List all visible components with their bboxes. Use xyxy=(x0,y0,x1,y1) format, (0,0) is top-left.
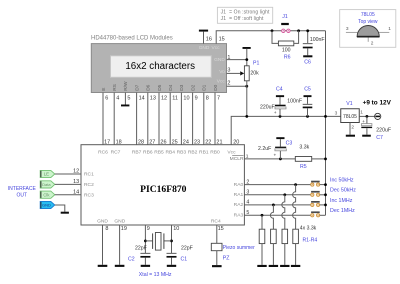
ground LCD pin16 xyxy=(199,30,208,32)
svg-text:HD44780-based LCD Modules: HD44780-based LCD Modules xyxy=(91,36,173,42)
wire Data to RC2 xyxy=(55,183,81,185)
svg-text:16: 16 xyxy=(206,37,212,43)
svg-text:D6: D6 xyxy=(146,84,152,90)
PIC left pin numbers 12 13 14 xyxy=(73,169,79,196)
svg-text:1: 1 xyxy=(388,26,391,32)
wire RA2 to button xyxy=(244,204,310,206)
svg-text:RC7: RC7 xyxy=(111,149,121,155)
svg-text:J1 = Off :soft light: J1 = Off :soft light xyxy=(221,16,264,22)
wire D6 LCD13-PIC27 xyxy=(147,93,149,145)
svg-text:4: 4 xyxy=(116,95,119,101)
svg-text:8: 8 xyxy=(105,226,108,232)
svg-text:9: 9 xyxy=(195,95,198,101)
svg-text:220uF: 220uF xyxy=(260,104,275,110)
svg-text:100: 100 xyxy=(282,48,291,54)
svg-text:D3: D3 xyxy=(179,84,185,90)
78L05 top view legend box xyxy=(340,10,396,48)
node C7 junction xyxy=(366,115,369,118)
wire GND tag to ground xyxy=(55,205,65,212)
svg-text:15: 15 xyxy=(218,226,224,232)
svg-text:D0: D0 xyxy=(213,84,219,90)
svg-text:Xtal = 13 MHz: Xtal = 13 MHz xyxy=(139,272,172,278)
svg-text:C1: C1 xyxy=(181,256,188,262)
ground C4 top xyxy=(276,95,284,97)
wire piezo to ground xyxy=(216,251,218,265)
ground PIC pin8 xyxy=(98,265,108,267)
svg-text:D7: D7 xyxy=(134,84,140,90)
wire P1 bottom to +5V rail xyxy=(246,81,248,117)
PIC bottom labels GND GND RC4 xyxy=(97,218,221,224)
wire D0 LCD7-PIC21 xyxy=(214,93,216,145)
microcontroller U1 PIC16F870 xyxy=(81,145,244,225)
svg-text:22: 22 xyxy=(205,140,211,146)
PIC bottom pin numbers 8 19 9 10 15 xyxy=(105,226,223,232)
svg-text:6: 6 xyxy=(105,95,108,101)
wire resistor to ground xyxy=(295,244,297,265)
svg-text:RC2: RC2 xyxy=(84,182,94,188)
svg-text:220uF: 220uF xyxy=(376,127,391,133)
PIC top port labels xyxy=(98,149,236,155)
capacitor C4 220uF xyxy=(260,87,286,117)
svg-text:17: 17 xyxy=(104,140,110,146)
wire LCD pin16 GND xyxy=(203,32,205,44)
node rail C4 junction xyxy=(279,115,282,118)
potentiometer P1 20k xyxy=(240,60,259,80)
svg-text:Vcc: Vcc xyxy=(212,45,221,51)
connector tag Clk xyxy=(40,191,55,198)
ground C2 xyxy=(141,265,150,267)
svg-text:20k: 20k xyxy=(250,71,259,77)
wire RS LCD4-PIC18 xyxy=(113,93,115,145)
svg-text:D1: D1 xyxy=(202,84,208,90)
svg-text:Inc 1MHz: Inc 1MHz xyxy=(330,198,353,204)
wire PIC pin8 GND xyxy=(102,225,104,265)
wire V1 pin1 to +9-12V input xyxy=(359,115,374,117)
PIC top pin numbers xyxy=(104,140,239,146)
wire RA3 to button xyxy=(244,214,310,216)
wire LE to RC1 xyxy=(55,173,81,175)
svg-text:13: 13 xyxy=(150,95,156,101)
svg-text:15: 15 xyxy=(219,37,225,43)
wire LCD pin15 Vcc to top net xyxy=(216,31,325,44)
svg-text:R1-R4: R1-R4 xyxy=(303,238,318,244)
svg-text:RS: RS xyxy=(112,84,118,91)
wire R/W LCD5 to ground xyxy=(124,93,126,105)
svg-text:4x 3.3k: 4x 3.3k xyxy=(300,225,317,231)
node RA3 resistor junction xyxy=(261,214,264,217)
svg-text:D5: D5 xyxy=(157,84,163,90)
svg-text:12: 12 xyxy=(161,95,167,101)
wire R5 to +5V net xyxy=(312,158,326,160)
PIC left port labels RC1 RC2 RC3 xyxy=(84,172,94,199)
svg-text:GND: GND xyxy=(214,57,225,63)
svg-text:22pF: 22pF xyxy=(181,246,193,252)
svg-text:78L05: 78L05 xyxy=(343,114,357,120)
wire resistor to ground xyxy=(272,244,274,265)
svg-text:OUT: OUT xyxy=(17,192,28,198)
pushbutton S1 Inc 50kHz xyxy=(311,181,326,187)
wire RA1 to button xyxy=(244,194,310,196)
capacitor C5 100nF xyxy=(287,87,312,117)
svg-text:14: 14 xyxy=(139,95,145,101)
svg-text:V1: V1 xyxy=(346,101,352,107)
svg-text:GND: GND xyxy=(114,218,125,224)
ground V1 pin2 xyxy=(346,135,355,137)
svg-text:RB5: RB5 xyxy=(154,149,164,155)
svg-text:D4: D4 xyxy=(168,84,174,90)
svg-text:RC1: RC1 xyxy=(84,172,94,178)
node rail vertical net junction xyxy=(324,115,327,118)
wire D4 LCD11-PIC25 xyxy=(169,93,171,145)
PIC label MCLR with overline xyxy=(230,156,244,163)
ground C1 xyxy=(167,265,176,267)
wire resistor to ground xyxy=(284,244,286,265)
svg-text:RB0: RB0 xyxy=(210,149,220,155)
wire P1 top lead xyxy=(246,49,248,66)
svg-text:9: 9 xyxy=(147,226,150,232)
svg-text:+: + xyxy=(362,120,365,125)
svg-text:27: 27 xyxy=(149,140,155,146)
svg-text:1: 1 xyxy=(360,110,363,116)
svg-text:PIC16F870: PIC16F870 xyxy=(140,184,187,195)
svg-text:RB7: RB7 xyxy=(132,149,142,155)
wire D2 LCD9-PIC23 xyxy=(192,93,194,145)
wire RA2 lead with hop xyxy=(270,205,273,229)
node RA2 resistor junction xyxy=(272,204,275,207)
wire V1 pin2 to ground xyxy=(349,123,351,135)
svg-text:MCLR: MCLR xyxy=(230,156,244,162)
svg-text:Clk: Clk xyxy=(43,192,50,197)
wire RA0 lead with hops xyxy=(293,185,296,230)
wire PIC pin15 RC4 to piezo xyxy=(216,225,218,243)
svg-text:2.2uF: 2.2uF xyxy=(258,146,271,152)
svg-text:C2: C2 xyxy=(128,256,135,262)
resistor R1 xyxy=(259,229,265,243)
node P1 bottom junction xyxy=(245,85,248,88)
PIC right pin numbers 2 3 4 5 xyxy=(246,179,249,216)
svg-text:24: 24 xyxy=(183,140,189,146)
wire LCD pin2 Vcc xyxy=(227,85,247,87)
wire PIC pin9 OSC1 xyxy=(144,225,146,253)
wire LCD pin1 GND xyxy=(227,59,247,61)
ground C6 xyxy=(303,55,312,57)
svg-text:26: 26 xyxy=(160,140,166,146)
svg-text:8: 8 xyxy=(206,95,209,101)
piezo buzzer PZ xyxy=(211,243,255,261)
svg-text:1: 1 xyxy=(227,55,230,61)
regulator V1 78L05 xyxy=(335,101,364,122)
svg-text:GND: GND xyxy=(42,203,51,208)
svg-text:+9 to 12V: +9 to 12V xyxy=(363,100,392,107)
svg-text:RA0: RA0 xyxy=(234,182,244,188)
svg-text:3: 3 xyxy=(346,26,349,32)
svg-text:11: 11 xyxy=(172,95,178,101)
svg-text:25: 25 xyxy=(172,140,178,146)
svg-text:R6: R6 xyxy=(284,55,291,61)
svg-text:Piezo summer: Piezo summer xyxy=(223,245,255,251)
svg-text:28: 28 xyxy=(138,140,144,146)
node button3 +5V junction xyxy=(324,204,327,207)
svg-text:PZ: PZ xyxy=(223,255,230,261)
svg-text:+: + xyxy=(273,153,276,158)
svg-text:J1 = On :strong light: J1 = On :strong light xyxy=(221,10,270,16)
resistor R3 xyxy=(282,229,288,243)
crystal Q1 13MHz xyxy=(145,233,171,251)
svg-text:18: 18 xyxy=(116,140,122,146)
node J1 left junction xyxy=(271,29,274,32)
svg-text:RC4: RC4 xyxy=(211,218,221,224)
wire D7 LCD14-PIC28 xyxy=(136,93,138,145)
svg-text:2: 2 xyxy=(371,40,374,46)
wire LCD pin3 Vo wiper xyxy=(227,72,241,74)
svg-text:C6: C6 xyxy=(304,59,311,65)
svg-text:2: 2 xyxy=(227,81,230,87)
note box J1 legend xyxy=(217,7,272,23)
connector tag LE xyxy=(40,170,55,177)
capacitor C6 100nF xyxy=(303,31,325,66)
svg-text:E: E xyxy=(101,88,107,91)
wire PIC pin10 OSC2 xyxy=(171,225,173,253)
capacitor C2 22pF xyxy=(128,246,150,265)
node J1 right junction xyxy=(297,29,300,32)
node rail P1 junction xyxy=(245,115,248,118)
svg-text:19: 19 xyxy=(121,226,127,232)
svg-text:78L05: 78L05 xyxy=(361,12,375,18)
wire D5 LCD12-PIC26 xyxy=(158,93,160,145)
svg-text:GND: GND xyxy=(97,218,108,224)
svg-text:Top view: Top view xyxy=(358,19,378,25)
node RA0 resistor junction xyxy=(294,183,297,186)
node P1 top junction xyxy=(245,58,248,61)
ground resistor xyxy=(291,265,300,267)
wire D1 LCD8-PIC22 xyxy=(203,93,205,145)
svg-text:100nF: 100nF xyxy=(287,99,302,105)
pushbutton S3 Inc 1MHz xyxy=(311,201,326,206)
svg-text:10: 10 xyxy=(183,95,189,101)
wire D3 LCD10-PIC24 xyxy=(180,93,182,145)
terminal +9 to 12V xyxy=(363,100,392,120)
svg-text:7: 7 xyxy=(217,95,220,101)
capacitor C3 2.2uF xyxy=(258,139,292,159)
node button1 +5V junction xyxy=(324,183,327,186)
svg-text:C5: C5 xyxy=(304,87,311,93)
node RA1 resistor junction xyxy=(283,193,286,196)
wire E LCD6-PIC17 xyxy=(102,93,104,145)
svg-text:Dec 50kHz: Dec 50kHz xyxy=(330,188,356,194)
wire RA0 to button xyxy=(244,184,310,186)
node crystal right junction xyxy=(170,240,173,243)
svg-text:INTERFACE: INTERFACE xyxy=(8,186,37,192)
ground P1 top xyxy=(243,47,251,49)
svg-text:J1: J1 xyxy=(282,14,288,20)
svg-text:C3: C3 xyxy=(286,140,293,146)
resistor R5 3.3k xyxy=(295,144,311,170)
node rail C5 junction xyxy=(306,115,309,118)
wire MCLR to R5 xyxy=(244,158,295,160)
wire RA3 lead xyxy=(261,215,263,229)
wire +5V rail to PIC Vcc pin20 xyxy=(231,116,341,144)
ground resistor xyxy=(269,265,278,267)
svg-text:RA3: RA3 xyxy=(234,213,244,219)
LCD bottom pin labels E RS R/W D7-D0 xyxy=(101,81,219,91)
svg-text:LE: LE xyxy=(44,172,49,177)
svg-text:3: 3 xyxy=(227,67,230,73)
wire RA1 lead with hops xyxy=(282,195,285,229)
wire resistor to ground xyxy=(261,244,263,265)
svg-text:16x2 characters: 16x2 characters xyxy=(125,61,195,72)
svg-text:RA2: RA2 xyxy=(234,202,244,208)
svg-text:+: + xyxy=(274,111,277,116)
svg-text:R/W: R/W xyxy=(123,81,129,91)
ground resistor xyxy=(280,265,289,267)
svg-text:5: 5 xyxy=(127,95,130,101)
ground C5 top xyxy=(304,95,312,97)
svg-text:20: 20 xyxy=(233,140,239,146)
svg-text:Vcc: Vcc xyxy=(217,79,226,85)
jumper J1 xyxy=(281,14,290,33)
svg-text:Vo: Vo xyxy=(219,69,225,75)
svg-text:Vcc: Vcc xyxy=(227,149,236,155)
pushbutton S2 Dec 50kHz xyxy=(311,191,326,197)
ground C3 top xyxy=(276,137,284,139)
svg-text:Dec 1MHz: Dec 1MHz xyxy=(330,208,355,214)
ground C7 xyxy=(362,135,371,137)
resistor R4 xyxy=(293,229,299,243)
node crystal left junction xyxy=(144,240,147,243)
svg-text:RC3: RC3 xyxy=(84,193,94,199)
svg-text:C7: C7 xyxy=(376,135,383,141)
svg-text:P1: P1 xyxy=(253,60,259,66)
svg-text:23: 23 xyxy=(194,140,200,146)
ground resistor xyxy=(257,265,266,267)
svg-text:RC6: RC6 xyxy=(98,149,108,155)
ground interface GND xyxy=(61,212,69,214)
resistor R6 100 bypass xyxy=(272,31,299,61)
svg-text:RB6: RB6 xyxy=(143,149,153,155)
svg-text:21: 21 xyxy=(216,140,222,146)
pushbutton S4 Dec 1MHz xyxy=(311,211,326,217)
svg-text:100nF: 100nF xyxy=(310,37,325,43)
capacitor C7 220uF xyxy=(361,116,391,140)
node R5 +5V junction xyxy=(324,158,327,161)
svg-text:RB1: RB1 xyxy=(199,149,209,155)
svg-text:3.3k: 3.3k xyxy=(299,144,309,150)
label INTERFACE OUT xyxy=(8,186,37,198)
svg-text:3: 3 xyxy=(335,110,338,116)
svg-text:2: 2 xyxy=(351,125,354,131)
svg-text:RB4: RB4 xyxy=(165,149,175,155)
svg-text:22pF: 22pF xyxy=(135,246,147,252)
svg-text:RB3: RB3 xyxy=(177,149,187,155)
svg-text:10: 10 xyxy=(173,226,179,232)
LCD module U-LCD HD44780 16x2 xyxy=(91,36,227,93)
wire Clk to RC3 xyxy=(55,194,81,196)
wire PIC pin19 GND xyxy=(119,225,121,265)
svg-text:R5: R5 xyxy=(300,164,307,170)
svg-text:GND: GND xyxy=(199,45,210,51)
node C6 top junction xyxy=(306,29,309,32)
wire +5V vertical net right side xyxy=(325,31,327,216)
ground R/W xyxy=(121,105,129,107)
svg-text:Inc 50kHz: Inc 50kHz xyxy=(330,178,354,184)
node C3 junction xyxy=(279,158,282,161)
PIC right port labels RA0-RA3 xyxy=(234,182,244,219)
connector tag GND xyxy=(40,201,55,208)
node button2 +5V junction xyxy=(324,193,327,196)
svg-text:Data: Data xyxy=(42,182,51,187)
ground PIC pin19 xyxy=(115,265,125,267)
connector tag Data xyxy=(40,181,55,188)
svg-text:RB2: RB2 xyxy=(188,149,198,155)
LCD pin numbers 6 4 5 14 13 12 11 10 9 8 7 xyxy=(105,95,220,101)
capacitor C1 22pF xyxy=(167,246,193,265)
svg-text:RA1: RA1 xyxy=(234,192,244,198)
svg-text:C4: C4 xyxy=(276,87,283,93)
svg-text:D2: D2 xyxy=(190,84,196,90)
ground piezo xyxy=(212,265,222,267)
resistor R2 xyxy=(271,229,277,243)
